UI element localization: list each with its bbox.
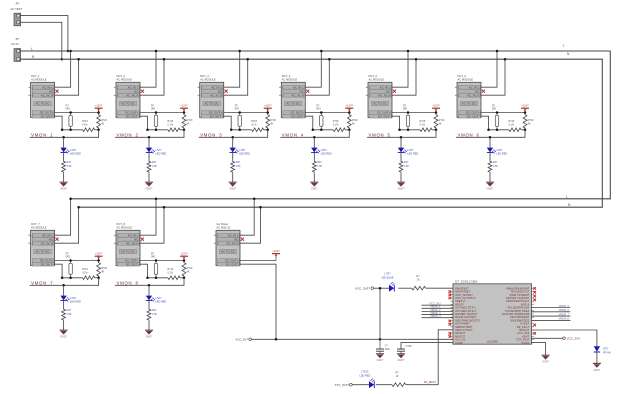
AC module DCT_2 block bbox=[114, 74, 140, 118]
junction DCT_2 N bus bbox=[163, 58, 166, 61]
svg-text:JP?: JP? bbox=[15, 38, 20, 41]
svg-text:0R1: 0R1 bbox=[403, 108, 408, 111]
svg-text:AC_IN_N: AC_IN_N bbox=[41, 241, 53, 245]
wire U1 KGND to C2 bbox=[401, 343, 453, 349]
svg-text:0R1: 0R1 bbox=[151, 108, 156, 111]
wire DCT_1 DC OUT- down bbox=[55, 116, 63, 130]
no-connect marker DCT_3 pin NC bbox=[225, 90, 228, 93]
LED D4 LED RED bbox=[311, 148, 332, 156]
svg-text:0.1%: 0.1% bbox=[333, 123, 339, 126]
power +12V module 3 bbox=[264, 105, 272, 113]
junction lower rail / DC OUT- bbox=[146, 277, 149, 280]
svg-text:JP?: JP? bbox=[15, 2, 20, 5]
svg-text:LED RED: LED RED bbox=[321, 153, 332, 156]
wire U1 to diode D11 bbox=[532, 330, 597, 346]
net label VMON_1 bbox=[31, 132, 53, 137]
wire DCT_1 AC_IN_N from N bus bbox=[55, 59, 79, 95]
svg-text:DC OUT-: DC OUT- bbox=[126, 114, 138, 118]
junction DCT_6 L bus bbox=[496, 50, 499, 53]
svg-text:+12V?: +12V? bbox=[432, 105, 440, 108]
wire DCT_4 DC OUT- down bbox=[305, 116, 313, 130]
junction lower rail / divider bottom bbox=[97, 129, 100, 132]
svg-text:VMON_7: VMON_7 bbox=[31, 280, 53, 285]
LED D2 LED RED bbox=[146, 148, 167, 156]
junction lower rail / box resistor bbox=[320, 129, 323, 132]
wire VMON_3 net bbox=[199, 130, 268, 138]
no-connect marker DCT_1 pin NC bbox=[55, 90, 58, 93]
junction DC OUT+ / divider top bbox=[183, 111, 186, 114]
svg-text:L?D?: L?D? bbox=[155, 149, 162, 152]
junction lower rail / divider bottom bbox=[183, 277, 186, 280]
junction DCT_5 N bus bbox=[415, 58, 418, 61]
resistor R3a shunt (box) bbox=[235, 104, 242, 129]
no-connect marker U1 right pin bbox=[533, 287, 536, 290]
diode D11 RF KILL bbox=[594, 346, 611, 354]
no-connect marker U1 right pin bbox=[533, 291, 536, 294]
port VCC_3V3 (right) bbox=[563, 336, 581, 340]
svg-text:R4?: R4? bbox=[317, 161, 322, 164]
wire DCT_1 AC IN L from L bus bbox=[55, 51, 71, 87]
no-connect marker U1 left pin bbox=[449, 297, 452, 300]
svg-text:0.1%: 0.1% bbox=[509, 123, 515, 126]
svg-text:4K: 4K bbox=[187, 270, 190, 273]
junction VMON wire / LED branch bbox=[148, 284, 151, 287]
net label VMON_4 bbox=[430, 315, 441, 318]
svg-text:DC OUT-: DC OUT- bbox=[41, 114, 53, 118]
net label VMON_1 bbox=[430, 306, 441, 309]
resistor R4a shunt (box) bbox=[316, 104, 323, 129]
svg-text:+12V?: +12V? bbox=[521, 105, 529, 108]
svg-text:VMON_4: VMON_4 bbox=[282, 132, 304, 137]
resistor R31 1K (horizontal) bbox=[392, 372, 406, 387]
svg-text:+12V?: +12V? bbox=[346, 105, 354, 108]
svg-text:DCT_5: DCT_5 bbox=[369, 74, 378, 78]
AC module DCT_7 block bbox=[28, 222, 54, 266]
junction DC OUT+ / box resistor bbox=[155, 259, 158, 262]
junction DC OUT+ / divider top bbox=[348, 111, 351, 114]
wire VMON_8 net bbox=[115, 278, 184, 286]
ground D11 bbox=[593, 363, 601, 371]
no-connect marker U1 left pin bbox=[449, 332, 452, 335]
svg-text:AC_IN_N: AC_IN_N bbox=[378, 93, 390, 97]
wire DCT_2 DC OUT+ rail bbox=[140, 112, 184, 114]
net label N (right top) bbox=[567, 52, 570, 56]
svg-text:AC TO DC: AC TO DC bbox=[205, 102, 219, 106]
junction lower rail / DC OUT- bbox=[146, 129, 149, 132]
wire U1 input VCC_3V3 bbox=[422, 304, 454, 306]
wire VCC_3V3 rail bbox=[374, 287, 453, 289]
svg-text:KGND: KGND bbox=[522, 342, 530, 345]
junction lower rail / divider bottom bbox=[348, 129, 351, 132]
svg-text:4K: 4K bbox=[352, 122, 355, 125]
no-connect marker DCT_5 pin NC bbox=[393, 90, 396, 93]
svg-text:AC TO DC: AC TO DC bbox=[221, 250, 235, 254]
svg-text:DCT_7: DCT_7 bbox=[31, 222, 40, 226]
svg-text:VMON_4: VMON_4 bbox=[430, 315, 441, 318]
junction VMON wire / LED branch bbox=[400, 136, 403, 139]
junction DCT_6 N bus bbox=[504, 58, 507, 61]
wire LED branch bbox=[63, 285, 65, 295]
net label VMON_4 bbox=[282, 132, 304, 137]
wire DCT_3 DC OUT- down bbox=[224, 116, 232, 130]
svg-text:DC OUT+: DC OUT+ bbox=[40, 259, 53, 263]
svg-text:GND?: GND? bbox=[60, 188, 67, 191]
junction lower rail / box resistor bbox=[69, 277, 72, 280]
svg-text:GND?: GND? bbox=[229, 188, 236, 191]
resistor R8a shunt (box) bbox=[151, 252, 158, 277]
svg-text:C?08: C?08 bbox=[406, 345, 412, 348]
svg-text:LED RED: LED RED bbox=[155, 301, 166, 304]
svg-text:AC TEST: AC TEST bbox=[11, 7, 23, 11]
svg-text:DCT_2: DCT_2 bbox=[117, 74, 126, 78]
svg-text:4K: 4K bbox=[101, 270, 104, 273]
capacitor C1 100u bbox=[376, 339, 391, 354]
wire VMON_1 net bbox=[30, 130, 99, 138]
svg-text:1.5K: 1.5K bbox=[67, 313, 72, 316]
net label VCC_3V3 bbox=[429, 303, 441, 306]
resistor R6d 1K5 (vertical) bbox=[488, 160, 498, 173]
net label N (row 2) bbox=[568, 203, 571, 207]
wire VMON_6 net bbox=[456, 130, 525, 138]
net label L (left) bbox=[31, 47, 33, 51]
wire DCT_3 lower rail bbox=[231, 129, 268, 131]
wire DCT_4 AC IN L from L bus bbox=[305, 51, 321, 87]
ground C2 bbox=[397, 354, 405, 362]
svg-text:AC TO DC: AC TO DC bbox=[286, 102, 300, 106]
junction DCT_3 N bus bbox=[246, 58, 249, 61]
wire DCT_2 AC IN L from L bus bbox=[140, 51, 156, 87]
wire Iso Power AC IN L from L bus bbox=[240, 199, 254, 235]
AC module DCT_4 block bbox=[279, 74, 305, 118]
wire JP1 pin2 to N bus bbox=[21, 22, 62, 59]
wire resistor to ground bbox=[63, 321, 65, 330]
svg-text:VMON_1: VMON_1 bbox=[31, 132, 53, 137]
svg-text:NC: NC bbox=[386, 89, 390, 93]
svg-text:DC OUT-: DC OUT- bbox=[41, 262, 53, 266]
wire U1 input VMON_4 bbox=[422, 317, 454, 319]
net label N (left) bbox=[32, 55, 35, 59]
power +12V module 1 bbox=[95, 105, 103, 113]
svg-text:4K: 4K bbox=[439, 122, 442, 125]
junction lower rail / box resistor bbox=[496, 129, 499, 132]
wire DCT_4 lower rail bbox=[313, 129, 350, 131]
svg-text:DC OUT+: DC OUT+ bbox=[125, 111, 138, 115]
svg-text:0.1%: 0.1% bbox=[168, 271, 174, 274]
wire DCT_8 AC IN L from L bus bbox=[140, 199, 156, 235]
svg-text:LED RED: LED RED bbox=[407, 153, 418, 156]
junction DC OUT+ / box resistor bbox=[69, 111, 72, 114]
resistor R7a shunt (box) bbox=[66, 252, 73, 277]
wire resistor to ground bbox=[313, 173, 315, 182]
junction DC OUT+ / box resistor bbox=[69, 259, 72, 262]
port TST_3V3 bbox=[335, 383, 353, 387]
svg-text:DCT_4: DCT_4 bbox=[282, 74, 291, 78]
svg-text:0.1%: 0.1% bbox=[82, 271, 88, 274]
svg-text:LED RED: LED RED bbox=[70, 153, 81, 156]
wire DCT_1 DC OUT+ rail bbox=[55, 112, 99, 114]
svg-text:R4?: R4? bbox=[152, 309, 157, 312]
svg-text:LED RED: LED RED bbox=[360, 374, 371, 377]
wire TST chain bbox=[352, 384, 438, 386]
wire DCT_8 AC_IN_N from N bus bbox=[140, 207, 164, 243]
wire resistor to ground bbox=[148, 173, 150, 182]
junction DCT_8 N bus bbox=[163, 206, 166, 209]
svg-text:AC IN L: AC IN L bbox=[42, 233, 53, 237]
power +24V iso bbox=[272, 250, 280, 261]
wire VMON_5 net bbox=[367, 130, 436, 138]
net label VMON_7 bbox=[559, 313, 570, 316]
svg-text:DCT_8: DCT_8 bbox=[117, 222, 126, 226]
svg-text:L?D?: L?D? bbox=[407, 149, 414, 152]
wire U1 input VMON_1 bbox=[422, 307, 454, 309]
svg-text:AC_IN_N: AC_IN_N bbox=[210, 93, 222, 97]
wire LED branch bbox=[232, 137, 234, 147]
resistor R2c divider (vertical) bbox=[182, 114, 193, 130]
svg-text:VCC_IN?: VCC_IN? bbox=[235, 338, 248, 342]
svg-text:AC TO DC: AC TO DC bbox=[373, 102, 387, 106]
svg-text:AC_IN_N: AC_IN_N bbox=[226, 241, 238, 245]
wire LED to resistor bbox=[148, 301, 150, 309]
svg-text:AC MODULE: AC MODULE bbox=[282, 78, 298, 82]
wire LED branch bbox=[148, 137, 150, 147]
svg-text:1.5K: 1.5K bbox=[317, 165, 322, 168]
svg-text:NC: NC bbox=[218, 89, 222, 93]
svg-text:NC: NC bbox=[300, 89, 304, 93]
wire DCT_3 AC_IN_N from N bus bbox=[224, 59, 248, 95]
resistor R1b sense 0.1% (horizontal) bbox=[82, 120, 95, 132]
svg-text:L?D?: L?D? bbox=[239, 149, 246, 152]
svg-text:0R1: 0R1 bbox=[235, 108, 240, 111]
junction lower rail / DC OUT- bbox=[61, 277, 64, 280]
wire U1 output VMON_7 bbox=[532, 315, 571, 317]
wire U1 output VMON_8 bbox=[532, 319, 571, 321]
svg-text:1K: 1K bbox=[417, 278, 420, 281]
wire Iso Power AC_IN_N from N bus bbox=[240, 207, 261, 243]
junction DC OUT+ / divider top bbox=[97, 259, 100, 262]
net label L (row 2) bbox=[566, 195, 568, 199]
svg-text:+24V?: +24V? bbox=[272, 250, 280, 253]
svg-text:DC OUT-: DC OUT- bbox=[226, 262, 238, 266]
svg-text:0R1: 0R1 bbox=[492, 108, 497, 111]
svg-text:AC TO DC: AC TO DC bbox=[462, 102, 476, 106]
svg-text:+12V?: +12V? bbox=[95, 253, 103, 256]
resistor R7c divider (vertical) bbox=[97, 262, 108, 278]
op-amp U1 controller STM32 block bbox=[451, 279, 534, 345]
svg-text:DC OUT-: DC OUT- bbox=[210, 114, 222, 118]
svg-text:DC OUT-: DC OUT- bbox=[467, 114, 479, 118]
wire LED to resistor bbox=[63, 301, 65, 309]
junction VMON wire / LED branch bbox=[62, 136, 65, 139]
wire DCT_5 AC_IN_N from N bus bbox=[392, 59, 416, 95]
junction lower rail / DC OUT- bbox=[487, 129, 490, 132]
ground module 6 bbox=[486, 182, 494, 190]
svg-text:1.5K: 1.5K bbox=[236, 165, 241, 168]
svg-text:AC_IN_N: AC_IN_N bbox=[292, 93, 304, 97]
wire LED to resistor bbox=[489, 153, 491, 161]
wire DCT_6 lower rail bbox=[489, 129, 526, 131]
connector JP1 AC TEST bbox=[11, 2, 23, 25]
svg-text:1K: 1K bbox=[396, 375, 399, 378]
svg-text:DCT_3: DCT_3 bbox=[200, 74, 209, 78]
svg-text:AC MODULE: AC MODULE bbox=[31, 226, 47, 230]
resistor R5c divider (vertical) bbox=[434, 114, 445, 130]
svg-text:1.5K: 1.5K bbox=[493, 165, 498, 168]
resistor R1a shunt (box) bbox=[66, 104, 73, 129]
wire DCT_6 AC IN L from L bus bbox=[481, 51, 497, 87]
ground module 8 bbox=[145, 330, 153, 338]
wire U1 input VMON_2 bbox=[422, 311, 454, 313]
svg-text:0R1: 0R1 bbox=[316, 108, 321, 111]
no-connect marker DCT_2 pin NC bbox=[141, 90, 144, 93]
junction lower rail / divider bottom bbox=[524, 129, 527, 132]
power +12V module 6 bbox=[521, 105, 529, 113]
svg-text:+12V?: +12V? bbox=[264, 105, 272, 108]
resistor R4b sense 0.1% (horizontal) bbox=[333, 120, 346, 132]
net label VMON_6 bbox=[458, 132, 480, 137]
wire U1 output VMON_5 bbox=[532, 307, 571, 309]
junction VMON wire / LED branch bbox=[313, 136, 316, 139]
svg-text:DC OUT+: DC OUT+ bbox=[291, 111, 304, 115]
svg-text:TST_3V3?: TST_3V3? bbox=[335, 383, 350, 387]
ground module 7 bbox=[60, 330, 68, 338]
svg-text:VMON_6: VMON_6 bbox=[458, 132, 480, 137]
junction DCT_1 N bus bbox=[77, 58, 80, 61]
junction lower rail / DC OUT- bbox=[61, 129, 64, 132]
junction DCT_7 L bus bbox=[69, 198, 72, 201]
wire resistor to ground bbox=[400, 173, 402, 182]
svg-text:AC TO DC: AC TO DC bbox=[121, 250, 135, 254]
ground module 5 bbox=[397, 182, 405, 190]
wire VCC_IN rail to U1 bbox=[251, 338, 453, 340]
resistor R3d 1K5 (vertical) bbox=[231, 160, 241, 173]
ground module 1 bbox=[60, 182, 68, 190]
junction DC OUT+ / box resistor bbox=[320, 111, 323, 114]
wire DCT_8 DC OUT+ rail bbox=[140, 260, 184, 262]
svg-text:GND?: GND? bbox=[146, 336, 153, 339]
svg-text:L?D?: L?D? bbox=[155, 297, 162, 300]
svg-text:DC OUT+: DC OUT+ bbox=[125, 259, 138, 263]
svg-text:GND?: GND? bbox=[377, 359, 384, 362]
wire LED branch bbox=[63, 137, 65, 147]
no-connect marker DCT_6 pin NC bbox=[482, 90, 485, 93]
junction lower rail / DC OUT- bbox=[230, 129, 233, 132]
junction lower rail / box resistor bbox=[407, 129, 410, 132]
wire DCT_7 AC_IN_N from N bus bbox=[55, 207, 79, 243]
wire LED to resistor bbox=[148, 153, 150, 161]
wire LED branch bbox=[313, 137, 315, 147]
ground module 2 bbox=[145, 182, 153, 190]
wire U1 input VMON_3 bbox=[422, 314, 454, 316]
svg-text:4K: 4K bbox=[270, 122, 273, 125]
svg-text:AC_IN_N: AC_IN_N bbox=[467, 93, 479, 97]
LED D6 LED RED bbox=[487, 148, 508, 156]
junction VCC_3V3 rail / vertical bbox=[379, 287, 382, 290]
wire DCT_4 AC_IN_N from N bus bbox=[305, 59, 329, 95]
wire DCT_6 DC OUT- down bbox=[481, 116, 489, 130]
net label VMON_3 bbox=[200, 132, 222, 137]
AC module DCT_1 block bbox=[28, 74, 54, 118]
junction DCT_8 L bus bbox=[155, 198, 158, 201]
svg-text:NC: NC bbox=[49, 237, 53, 241]
svg-text:0.1%: 0.1% bbox=[168, 123, 174, 126]
svg-text:LED RED: LED RED bbox=[70, 301, 81, 304]
svg-text:KGND: KGND bbox=[455, 342, 463, 345]
resistor R1d 1K5 (vertical) bbox=[62, 160, 72, 173]
resistor R7b sense 0.1% (horizontal) bbox=[82, 268, 95, 280]
wire DCT_8 DC OUT- down bbox=[140, 264, 148, 278]
junction DC OUT+ / divider top bbox=[97, 111, 100, 114]
resistor R8b sense 0.1% (horizontal) bbox=[168, 268, 181, 280]
svg-text:VMON_6: VMON_6 bbox=[559, 309, 570, 312]
wire VCC_IN rail to LED rail (vertical) bbox=[379, 288, 381, 339]
svg-text:AC TO DC: AC TO DC bbox=[36, 102, 50, 106]
resistor R30 1K (horizontal) bbox=[412, 275, 426, 290]
junction DC OUT+ / divider top bbox=[524, 111, 527, 114]
wire TST chain up to U1 bbox=[438, 330, 453, 385]
svg-text:L: L bbox=[566, 195, 568, 199]
wire VMON_2 net bbox=[115, 130, 184, 138]
svg-text:NC: NC bbox=[475, 89, 479, 93]
junction DCT_1 L bus bbox=[69, 50, 72, 53]
net label L (right top) bbox=[563, 44, 565, 48]
wire LED to resistor bbox=[400, 153, 402, 161]
svg-text:L?D?: L?D? bbox=[385, 273, 392, 276]
svg-text:+12V?: +12V? bbox=[95, 105, 103, 108]
junction Iso Power L bus bbox=[253, 198, 256, 201]
LED D9 LED BLUE (horizontal) bbox=[382, 273, 395, 292]
wire DCT_5 DC OUT- down bbox=[392, 116, 400, 130]
power +12V module 4 bbox=[345, 105, 353, 113]
resistor R8c divider (vertical) bbox=[182, 262, 193, 278]
svg-text:VMON_8: VMON_8 bbox=[559, 318, 570, 321]
svg-text:100u: 100u bbox=[385, 348, 391, 351]
AC module DCT_6 block bbox=[455, 74, 481, 118]
wire LED to resistor bbox=[63, 153, 65, 161]
net label VMON_8 bbox=[117, 280, 139, 285]
svg-text:L: L bbox=[563, 44, 565, 48]
svg-text:+12V?: +12V? bbox=[180, 253, 188, 256]
junction DCT_4 L bus bbox=[320, 50, 323, 53]
ground C1 bbox=[376, 354, 384, 362]
junction JP1-N bbox=[61, 58, 64, 61]
wire resistor to ground bbox=[489, 173, 491, 182]
svg-text:AC MODULE: AC MODULE bbox=[369, 78, 385, 82]
svg-text:1.5K: 1.5K bbox=[152, 165, 157, 168]
svg-text:LED RED: LED RED bbox=[155, 153, 166, 156]
svg-text:AC MODULE: AC MODULE bbox=[200, 78, 216, 82]
svg-text:R4?: R4? bbox=[493, 161, 498, 164]
svg-text:GND?: GND? bbox=[487, 188, 494, 191]
junction DC OUT+ / box resistor bbox=[407, 111, 410, 114]
junction VMON wire / LED branch bbox=[231, 136, 234, 139]
power +12V module 5 bbox=[432, 105, 440, 113]
connector JP2 AC IN bbox=[11, 38, 21, 62]
svg-text:R4?: R4? bbox=[404, 161, 409, 164]
port VCC_IN bbox=[235, 338, 251, 342]
svg-text:AC IN: AC IN bbox=[11, 42, 18, 46]
svg-text:VMON_5: VMON_5 bbox=[369, 132, 391, 137]
wire DCT_6 AC_IN_N from N bus bbox=[481, 59, 505, 95]
resistor R4c divider (vertical) bbox=[347, 114, 358, 130]
junction lower rail / divider bottom bbox=[183, 129, 186, 132]
svg-text:DC OUT+: DC OUT+ bbox=[40, 111, 53, 115]
junction VMON wire / LED branch bbox=[62, 284, 65, 287]
wire U1 to VCC_3V3 port bbox=[532, 337, 563, 339]
resistor R7d 1K5 (vertical) bbox=[62, 308, 72, 321]
svg-text:VCC_3V3: VCC_3V3 bbox=[567, 336, 581, 340]
no-connect marker U1 left pin bbox=[449, 320, 452, 323]
wire LED to resistor bbox=[232, 153, 234, 161]
